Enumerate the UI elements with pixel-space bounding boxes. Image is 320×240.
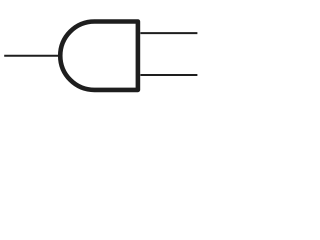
wire (input B, bottom right)	[140, 74, 197, 76]
wire (input A, top right)	[140, 32, 197, 34]
wire (output, left)	[4, 55, 59, 57]
AND gate U1 (mirrored, facing left)	[60, 22, 138, 90]
